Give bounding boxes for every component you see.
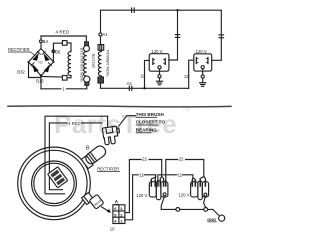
brush holder plug (102, 126, 121, 145)
svg-text:11: 11 (139, 173, 144, 178)
brush (top) (85, 42, 89, 46)
junction dot (143, 87, 145, 89)
svg-text:B: B (86, 146, 90, 152)
ground chain R1 (156, 69, 162, 85)
ground wire (lower schematic) (161, 196, 176, 210)
wire R1 right to top bus (169, 10, 178, 60)
svg-text:22: 22 (179, 157, 184, 162)
arrow RECP to terminal block (102, 207, 110, 212)
wire 22 link outlets (166, 160, 204, 185)
wire to GND (208, 209, 219, 215)
wire top bus (101, 9, 222, 11)
wire from bottom corner down (40, 76, 42, 89)
wire coil to bottom square (67, 76, 71, 78)
ground wire segment (180, 208, 204, 210)
wire 4 RED (top) (41, 35, 86, 37)
label 4 RED (bottom) (68, 121, 81, 126)
slip ring (bottom) (84, 76, 90, 82)
label A (114, 199, 118, 204)
label GND (207, 217, 217, 222)
svg-text:ROTOR: ROTOR (91, 54, 96, 68)
svg-text:120 V.: 120 V. (136, 193, 148, 198)
svg-text:RECTIFIER: RECTIFIER (8, 47, 30, 52)
connector A2 ticks (129, 86, 132, 90)
wire lead B (4 RED, inner) (49, 123, 101, 190)
svg-text:RECTIFIER: RECTIFIER (97, 167, 119, 172)
power winding (98, 50, 101, 76)
excitation winding L1 (68, 52, 71, 76)
svg-text:4 RED: 4 RED (56, 30, 70, 35)
wire 11 feed (lower schematic) (125, 175, 156, 220)
wire power bottom to A2 line (100, 83, 102, 88)
generator inner rings (32, 161, 77, 206)
svg-text:POWER WDG.: POWER WDG. (106, 50, 111, 77)
terminal B6 (52, 50, 55, 53)
connector ticks (riser 1) (175, 35, 179, 38)
wire power top riser (100, 10, 102, 33)
inline connector circle A (176, 208, 180, 212)
label 22 (lower left) (142, 156, 149, 162)
unit2 ground drop (204, 196, 206, 207)
wire rotor top drop (85, 36, 87, 42)
svg-text:A2: A2 (127, 81, 133, 86)
svg-text:120 V.: 120 V. (179, 193, 191, 198)
svg-text:10: 10 (110, 226, 115, 231)
label 11 (lower left) (139, 172, 144, 178)
wire 22 (receptacle 2) (189, 60, 194, 88)
svg-text:B4: B4 (43, 39, 49, 44)
wire 22 feed (lower schematic) (125, 160, 162, 213)
connector ticks (riser 2) (219, 35, 223, 38)
slip ring (top) (84, 46, 90, 52)
svg-text:A1: A1 (103, 32, 109, 37)
GND terminal circle (219, 215, 225, 221)
svg-text:GND: GND (207, 217, 216, 222)
svg-text:11: 11 (178, 173, 183, 178)
outlet 2 prongs (192, 181, 205, 187)
svg-text:B13: B13 (36, 78, 44, 83)
svg-text:22: 22 (184, 74, 189, 79)
note THIS BRUSH CLOSEST TO BEARING (136, 112, 166, 133)
wire 11 into outlet 1 (155, 175, 157, 177)
label 11 (link) (177, 172, 182, 178)
svg-text:NC: NC (38, 61, 43, 65)
label 22 (link) (178, 156, 185, 162)
wire to coil (67, 43, 71, 52)
rectifier block inside housing (48, 167, 68, 188)
outlet 2 body (191, 181, 209, 200)
svg-text:B6: B6 (55, 49, 61, 54)
watermark PartsTree (54, 107, 189, 139)
wire A2 run (101, 87, 189, 89)
receptacle R1 120V (top) (149, 54, 169, 71)
label RECTIFIER (bottom) (97, 167, 120, 173)
terminal B4 (40, 40, 43, 43)
svg-text:120 V.: 120 V. (152, 49, 164, 54)
terminal block A (113, 205, 125, 224)
svg-text:CLOSEST TO: CLOSEST TO (136, 120, 166, 125)
wire A1 to box (100, 36, 102, 45)
wire plug drop (107, 116, 109, 126)
svg-text:22: 22 (142, 157, 147, 162)
receptacle R2 120V (top) (194, 54, 212, 71)
svg-text:THIS BRUSH: THIS BRUSH (136, 112, 165, 117)
rotor winding (84, 52, 87, 77)
svg-text:120 V.: 120 V. (196, 49, 208, 54)
terminal box (power bottom) (98, 77, 103, 83)
svg-text:22: 22 (141, 73, 146, 78)
wire B4 drop (40, 36, 42, 49)
wire lead A (outer, to brush plug) (45, 116, 108, 194)
generator housing outer rings (18, 147, 91, 220)
svg-text:TM: TM (182, 107, 189, 113)
outlet 1 prongs (151, 181, 166, 187)
junction dot top bus (176, 9, 178, 11)
svg-text:B32: B32 (17, 69, 25, 74)
wire 11 link outlets (158, 175, 193, 184)
note leader line (119, 116, 136, 126)
terminal square top (excitation) (62, 41, 67, 46)
ground chain R2 (200, 69, 206, 87)
inline connector circle B (204, 208, 208, 212)
connector ticks (top bus) (132, 8, 135, 12)
wire 22 (receptacle 1) (145, 60, 150, 88)
brush (bottom) (85, 82, 89, 85)
wire 22 into outlet 1 (161, 160, 163, 177)
terminal square bottom (excitation) (62, 76, 67, 81)
outlet 1 body (149, 181, 168, 200)
label 1 (61, 86, 66, 91)
terminal A1 (99, 33, 102, 36)
receptacle stub on housing (82, 193, 94, 205)
bridge rectifier BR1 (28, 49, 55, 77)
wire bottom square to B13 corner (41, 76, 62, 79)
wire B6 to excitation winding (53, 43, 62, 62)
divider line (8, 106, 231, 107)
svg-text:4 RED: 4 RED (68, 121, 81, 126)
wire right riser (212, 10, 222, 60)
wire 1 (bottom of rotor) (41, 85, 87, 89)
brush holder assembly on housing (81, 144, 108, 169)
svg-text:BEARING: BEARING (136, 128, 158, 133)
wire from left corner down and right (29, 62, 42, 78)
RECP connector (89, 194, 104, 209)
connector box (power top) (98, 45, 104, 51)
